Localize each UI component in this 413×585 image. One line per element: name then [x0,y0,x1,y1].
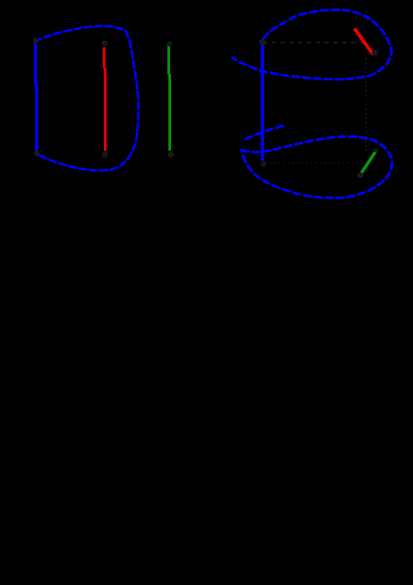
gray dashed projection line top [263,42,364,44]
left red spin line lower segment [104,68,107,151]
left dashed blue uncertainty blob [35,26,139,170]
gray dotted projection line right vertical [365,44,367,153]
right blue axis end dots [259,39,266,46]
left red line end dots [102,40,108,46]
left red spin line upper segment [103,47,106,68]
top-right dashed blue blob (open: section hidden near axis) [233,10,392,80]
green vector tip dot [374,148,378,152]
left green line end dots [167,41,173,47]
green vector base dot [357,172,363,178]
left green spin line upper segment [167,45,170,74]
left blue spin line upper segment [34,41,37,85]
red vector tip dot [372,50,378,56]
bottom-right dashed blue blob [242,137,392,198]
left blue spin line lower segment [35,84,38,152]
small dashed arc near axis bottom [246,126,284,139]
green tilted spin vector [362,151,376,172]
red tilted spin vector [355,30,372,54]
gray dotted projection line bottom [265,162,364,164]
left blue line end dots [33,38,39,44]
left green spin line lower segment [168,74,171,151]
right blue axis line [261,41,264,161]
